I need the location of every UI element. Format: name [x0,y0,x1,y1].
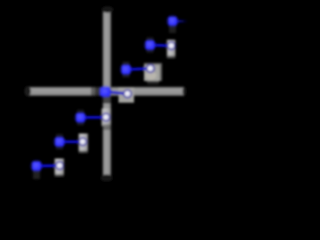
N atom N4 [166,15,179,28]
vertical bond bottom end cap [100,174,112,181]
horizontal bond right end cap [183,87,187,96]
bond stub behind H atom H6 [55,159,65,179]
N-H bond B3 (N3 to H3) [150,44,171,47]
faint depth stub at N atom N6 [56,134,63,150]
horizontal bond left end cap [24,86,30,96]
faint depth stub above N atom N2 [123,62,130,78]
N-H bond B5 (N5 to H4) [81,116,107,119]
bond stub behind H atom H5 [79,134,89,156]
N atom N3 [144,39,157,52]
N atom N6 [53,135,66,148]
faint depth stub below N atom N4 [169,17,176,33]
horizontal axis bond [29,87,184,96]
H atom H4 [100,111,112,123]
faint depth stub at N atom N5 [77,110,84,126]
bond stub behind H atom H1 [119,88,135,103]
bond stub behind H atom H4 [102,109,112,127]
N-H bond B2 (N2 to H2) [126,69,150,70]
H atom H3 [165,40,177,52]
H atom H5 [77,136,89,148]
vertical bond top end cap [102,6,114,13]
H atom H1 [122,88,134,100]
N atom N7 [30,160,43,173]
N-H bond B1 (central N to H1) [105,92,128,94]
N-H bond B4 (N4, fading right) [173,20,188,23]
N atom N5 [74,111,87,124]
shadow on vertical bond below central atom [102,96,111,104]
shadow on vertical bond below H atom H4 [103,124,111,130]
N-H bond B7 (N7 to H6) [37,164,60,167]
shadow on horizontal bond left of central atom [91,87,102,97]
H atom H2 [144,63,156,75]
H atom H6 [54,160,66,172]
bond stub behind H atom H2 [144,63,162,84]
faint depth stub above N atom N3 [147,37,154,53]
central N atom N1 [99,85,112,98]
vertical axis bond [103,12,112,175]
N atom N2 [120,63,133,76]
faint depth stub below N atom N7 [33,164,40,179]
N-H bond B6 (N6 to H5) [60,140,83,143]
bond stub behind H atom H3 [167,40,176,60]
